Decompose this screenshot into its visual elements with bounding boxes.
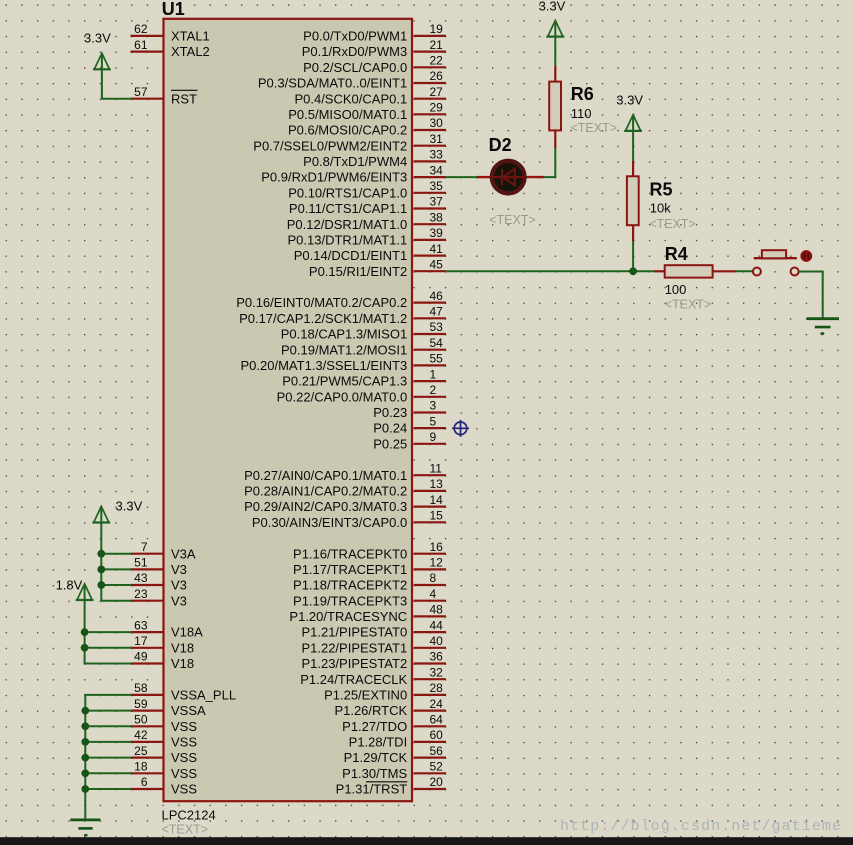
svg-text:37: 37 xyxy=(430,195,444,209)
pin 11 stub right xyxy=(414,474,446,476)
pin 6 stub left xyxy=(131,788,164,790)
svg-text:P0.24: P0.24 xyxy=(373,421,407,436)
pin 27 stub right xyxy=(414,98,446,100)
button actuator marker xyxy=(800,250,812,262)
svg-text:47: 47 xyxy=(430,305,444,319)
svg-text:36: 36 xyxy=(430,650,444,664)
pin 61 stub left xyxy=(131,50,164,52)
wire 3.3V bus V3 xyxy=(100,522,102,601)
pin 39 stub right xyxy=(414,239,446,241)
svg-text:P0.19/MAT1.2/MOSI1: P0.19/MAT1.2/MOSI1 xyxy=(281,342,407,357)
pin 9 stub right xyxy=(414,443,446,445)
node VSS 6 xyxy=(81,785,89,793)
pin 51 stub left xyxy=(131,568,164,570)
pin 14 stub right xyxy=(414,506,446,508)
node VSS 25 xyxy=(81,754,89,762)
pin 34 stub right xyxy=(414,176,446,178)
svg-text:P1.18/TRACEPKT2: P1.18/TRACEPKT2 xyxy=(293,578,407,593)
pin 4 stub right xyxy=(414,600,446,602)
junction node xyxy=(629,267,637,275)
svg-text:P1.26/RTCK: P1.26/RTCK xyxy=(334,703,407,718)
svg-text:P0.30/AIN3/EINT3/CAP0.0: P0.30/AIN3/EINT3/CAP0.0 xyxy=(252,515,407,530)
pin 56 stub right xyxy=(414,756,446,758)
svg-text:5: 5 xyxy=(430,414,437,428)
pin 29 stub right xyxy=(414,113,446,115)
svg-text:34: 34 xyxy=(430,163,444,177)
svg-text:P1.28/TDI: P1.28/TDI xyxy=(349,735,408,750)
pin 21 stub right xyxy=(414,50,446,52)
svg-text:P1.21/PIPESTAT0: P1.21/PIPESTAT0 xyxy=(301,625,407,640)
svg-text:VSS: VSS xyxy=(171,766,197,781)
wire to V3 51 xyxy=(100,568,131,570)
svg-text:17: 17 xyxy=(134,634,148,648)
svg-text:45: 45 xyxy=(430,257,444,271)
svg-text:U1: U1 xyxy=(162,0,185,19)
svg-text:29: 29 xyxy=(430,101,444,115)
svg-text:31: 31 xyxy=(430,132,444,146)
svg-text:<TEXT>: <TEXT> xyxy=(162,823,209,837)
wire R5 to node xyxy=(632,241,634,271)
power arrow 3.3V xyxy=(624,115,642,131)
bottom bar xyxy=(0,837,853,845)
svg-text:50: 50 xyxy=(134,713,148,727)
pin 59 stub left xyxy=(131,709,164,711)
svg-text:39: 39 xyxy=(430,226,444,240)
pin 54 stub right xyxy=(414,349,446,351)
pin 22 stub right xyxy=(414,66,446,68)
svg-text:1: 1 xyxy=(430,367,437,381)
pin 25 stub left xyxy=(131,756,164,758)
pin 2 stub right xyxy=(414,396,446,398)
pin 37 stub right xyxy=(414,207,446,209)
svg-text:XTAL2: XTAL2 xyxy=(171,44,210,59)
resistor R5 top pin xyxy=(632,161,634,177)
svg-text:63: 63 xyxy=(134,618,148,632)
svg-text:13: 13 xyxy=(430,477,444,491)
resistor R4 left pin xyxy=(655,270,666,272)
svg-text:3.3V: 3.3V xyxy=(616,92,643,107)
node V18A xyxy=(81,628,89,636)
pin 35 stub right xyxy=(414,192,446,194)
pin 5 stub right xyxy=(414,427,446,429)
svg-text:61: 61 xyxy=(134,38,148,52)
wire to V3 43 xyxy=(100,584,131,586)
node V3 43 xyxy=(97,581,105,589)
svg-text:53: 53 xyxy=(430,320,444,334)
svg-text:V3: V3 xyxy=(171,578,187,593)
pin 26 stub right xyxy=(414,82,446,84)
pin 7 stub left xyxy=(131,553,164,555)
svg-text:24: 24 xyxy=(430,697,444,711)
chip U1 (LPC2124) body xyxy=(164,19,413,801)
node V18 17 xyxy=(81,644,89,652)
power arrow 3.3V xyxy=(92,506,110,522)
pin 1 stub right xyxy=(414,380,446,382)
node V3A xyxy=(97,550,105,558)
svg-text:P0.21/PWM5/CAP1.3: P0.21/PWM5/CAP1.3 xyxy=(282,374,407,389)
svg-text:42: 42 xyxy=(134,728,148,742)
wire R4 to button xyxy=(736,270,753,272)
svg-text:110: 110 xyxy=(571,106,592,121)
svg-text:25: 25 xyxy=(134,744,148,758)
pin 28 stub right xyxy=(414,694,446,696)
svg-text:22: 22 xyxy=(430,54,444,68)
pin 38 stub right xyxy=(414,223,446,225)
svg-text:3: 3 xyxy=(430,399,437,413)
node VSS 18 xyxy=(81,769,89,777)
svg-text:P0.8/TxD1/PWM4: P0.8/TxD1/PWM4 xyxy=(303,154,407,169)
wire 3.3V to R5 xyxy=(632,130,634,161)
pin 33 stub right xyxy=(414,160,446,162)
pin 50 stub left xyxy=(131,725,164,727)
svg-text:3.3V: 3.3V xyxy=(116,499,143,514)
svg-text:9: 9 xyxy=(430,430,437,444)
wire button to ground xyxy=(799,272,823,319)
svg-text:21: 21 xyxy=(430,38,444,52)
svg-text:V18: V18 xyxy=(171,640,194,655)
svg-text:100: 100 xyxy=(665,282,687,297)
svg-text:51: 51 xyxy=(134,556,148,570)
pin 18 stub left xyxy=(131,772,164,774)
svg-text:R4: R4 xyxy=(665,244,688,264)
wire 3.3V to RST vertical xyxy=(101,69,103,99)
svg-text:49: 49 xyxy=(134,650,148,664)
svg-text:60: 60 xyxy=(430,728,444,742)
wire to V18A xyxy=(84,631,132,633)
resistor R6 top pin xyxy=(554,66,556,83)
pin 48 stub right xyxy=(414,615,446,617)
wire to VSS 42 xyxy=(84,741,131,743)
svg-text:44: 44 xyxy=(430,618,444,632)
resistor R4 right pin xyxy=(713,270,736,272)
svg-text:62: 62 xyxy=(134,22,148,36)
svg-text:P0.5/MISO0/MAT0.1: P0.5/MISO0/MAT0.1 xyxy=(288,107,407,122)
svg-text:VSS: VSS xyxy=(171,719,197,734)
pin 15 stub right xyxy=(414,521,446,523)
pin 16 stub right xyxy=(414,553,446,555)
svg-text:28: 28 xyxy=(430,681,444,695)
RST overline xyxy=(171,89,198,91)
pin 58 stub left xyxy=(131,694,164,696)
pin 42 stub left xyxy=(131,741,164,743)
svg-text:V3A: V3A xyxy=(171,546,196,561)
svg-text:59: 59 xyxy=(134,697,148,711)
svg-text:27: 27 xyxy=(430,85,444,99)
svg-text:P0.7/SSEL0/PWM2/EINT2: P0.7/SSEL0/PWM2/EINT2 xyxy=(253,138,407,153)
svg-text:11: 11 xyxy=(430,461,443,475)
node VSS 42 xyxy=(81,738,89,746)
svg-text:48: 48 xyxy=(430,603,444,617)
svg-text:1.8V: 1.8V xyxy=(56,577,83,592)
svg-text:LPC2124: LPC2124 xyxy=(162,808,216,823)
svg-text:P1.23/PIPESTAT2: P1.23/PIPESTAT2 xyxy=(301,656,407,671)
svg-text:55: 55 xyxy=(430,352,444,366)
pin 43 stub left xyxy=(131,584,164,586)
pin 49 stub left xyxy=(131,662,164,664)
svg-text:V18: V18 xyxy=(171,656,194,671)
wire R6 to LED corner xyxy=(543,148,555,177)
svg-text:P0.22/CAP0.0/MAT0.0: P0.22/CAP0.0/MAT0.0 xyxy=(277,389,408,404)
pin 45 stub right xyxy=(414,270,446,272)
svg-text:P0.2/SCL/CAP0.0: P0.2/SCL/CAP0.0 xyxy=(303,60,407,75)
svg-text:15: 15 xyxy=(430,509,444,523)
svg-text:P1.16/TRACEPKT0: P1.16/TRACEPKT0 xyxy=(293,546,407,561)
svg-text:43: 43 xyxy=(134,571,148,585)
svg-text:46: 46 xyxy=(430,289,444,303)
svg-text:18: 18 xyxy=(134,760,148,774)
svg-text:P0.11/CTS1/CAP1.1: P0.11/CTS1/CAP1.1 xyxy=(289,201,407,216)
LED D2 right pin xyxy=(524,176,544,178)
pin 57 stub left xyxy=(131,98,164,100)
power arrow 3.3V xyxy=(93,53,111,69)
pin 23 stub left xyxy=(131,600,164,602)
svg-text:P0.15/RI1/EINT2: P0.15/RI1/EINT2 xyxy=(309,264,407,279)
wire to VSSA xyxy=(84,710,131,712)
pin 46 stub right xyxy=(414,302,446,304)
pin 36 stub right xyxy=(414,662,446,664)
pin 20 stub right xyxy=(414,788,446,790)
pin 31 stub right xyxy=(414,145,446,147)
svg-text:P1.29/TCK: P1.29/TCK xyxy=(344,750,408,765)
resistor R5 bottom pin xyxy=(632,225,634,241)
wire P0.15 net xyxy=(445,270,656,272)
svg-text:56: 56 xyxy=(430,744,444,758)
pin 41 stub right xyxy=(414,255,446,257)
svg-text:<TEXT>: <TEXT> xyxy=(571,121,618,135)
svg-text:54: 54 xyxy=(430,336,444,350)
svg-text:6: 6 xyxy=(141,775,148,789)
svg-text:P0.12/DSR1/MAT1.0: P0.12/DSR1/MAT1.0 xyxy=(287,217,407,232)
svg-text:38: 38 xyxy=(430,210,444,224)
svg-text:P0.23: P0.23 xyxy=(373,405,407,420)
svg-text:P1.25/EXTIN0: P1.25/EXTIN0 xyxy=(324,688,407,703)
svg-text:VSS: VSS xyxy=(171,750,197,765)
pin 55 stub right xyxy=(414,364,446,366)
svg-text:P1.30/TMS: P1.30/TMS xyxy=(342,766,407,781)
LED D2 body xyxy=(492,161,525,194)
svg-text:P1.31/TRST: P1.31/TRST xyxy=(336,782,408,797)
svg-text:7: 7 xyxy=(141,540,148,554)
ground left xyxy=(70,819,100,822)
LED D2 left pin xyxy=(477,176,492,178)
svg-text:VSS: VSS xyxy=(171,735,197,750)
svg-text:P0.18/CAP1.3/MISO1: P0.18/CAP1.3/MISO1 xyxy=(281,327,407,342)
pin 24 stub right xyxy=(414,709,446,711)
svg-text:57: 57 xyxy=(134,85,148,99)
wire to VSS 18 xyxy=(84,772,131,774)
LED D2 diode symbol xyxy=(492,169,525,186)
power arrow 1.8V xyxy=(76,584,94,600)
wire to V3 23 xyxy=(100,600,131,602)
svg-text:40: 40 xyxy=(430,634,444,648)
svg-text:http://blog.csdn.net/gatieme: http://blog.csdn.net/gatieme xyxy=(560,818,841,835)
pin 30 stub right xyxy=(414,129,446,131)
svg-text:P0.3/SDA/MAT0..0/EINT1: P0.3/SDA/MAT0..0/EINT1 xyxy=(258,76,407,91)
svg-text:P1.24/TRACECLK: P1.24/TRACECLK xyxy=(300,672,407,687)
button right terminal xyxy=(791,268,799,276)
pin 53 stub right xyxy=(414,333,446,335)
svg-text:P0.20/MAT1.3/SSEL1/EINT3: P0.20/MAT1.3/SSEL1/EINT3 xyxy=(241,358,408,373)
svg-text:P0.14/DCD1/EINT1: P0.14/DCD1/EINT1 xyxy=(294,248,407,263)
svg-text:10k: 10k xyxy=(650,201,671,216)
origin crosshair cursor xyxy=(452,420,469,437)
svg-text:P0.4/SCK0/CAP0.1: P0.4/SCK0/CAP0.1 xyxy=(294,91,407,106)
svg-text:V18A: V18A xyxy=(171,625,203,640)
pin 47 stub right xyxy=(414,317,446,319)
svg-text:P0.29/AIN2/CAP0.3/MAT0.3: P0.29/AIN2/CAP0.3/MAT0.3 xyxy=(244,499,407,514)
svg-text:P0.16/EINT0/MAT0.2/CAP0.2: P0.16/EINT0/MAT0.2/CAP0.2 xyxy=(236,295,407,310)
svg-text:R5: R5 xyxy=(650,179,673,199)
svg-text:VSS: VSS xyxy=(171,782,197,797)
svg-text:P0.1/RxD0/PWM3: P0.1/RxD0/PWM3 xyxy=(302,44,407,59)
svg-text:D2: D2 xyxy=(489,135,512,155)
svg-text:P0.28/AIN1/CAP0.2/MAT0.2: P0.28/AIN1/CAP0.2/MAT0.2 xyxy=(244,484,407,499)
power arrow 3.3V xyxy=(546,21,564,37)
pin 44 stub right xyxy=(414,631,446,633)
svg-text:16: 16 xyxy=(430,540,444,554)
svg-text:41: 41 xyxy=(430,242,444,256)
svg-text:P1.22/PIPESTAT1: P1.22/PIPESTAT1 xyxy=(301,640,407,655)
svg-text:P0.25: P0.25 xyxy=(373,436,407,451)
resistor R5 body xyxy=(627,176,639,225)
svg-text:3.3V: 3.3V xyxy=(84,31,111,46)
svg-text:32: 32 xyxy=(430,665,444,679)
svg-text:P0.0/TxD0/PWM1: P0.0/TxD0/PWM1 xyxy=(303,29,407,44)
svg-text:V3: V3 xyxy=(171,593,187,608)
svg-text:52: 52 xyxy=(430,760,444,774)
pin 19 stub right xyxy=(414,35,446,37)
svg-text:P0.6/MOSI0/CAP0.2: P0.6/MOSI0/CAP0.2 xyxy=(288,123,407,138)
svg-text:R6: R6 xyxy=(571,84,594,104)
pin 8 stub right xyxy=(414,584,446,586)
svg-text:P1.19/TRACEPKT3: P1.19/TRACEPKT3 xyxy=(293,593,407,608)
wire 1.8V bus xyxy=(84,599,86,664)
pin 40 stub right xyxy=(414,647,446,649)
svg-text:3.3V: 3.3V xyxy=(539,0,566,14)
svg-text:VSSA: VSSA xyxy=(171,703,206,718)
wire to V18 17 xyxy=(84,647,132,649)
svg-text:20: 20 xyxy=(430,775,444,789)
wire 3.3V to R6 xyxy=(554,36,556,66)
resistor R4 body xyxy=(665,265,713,277)
svg-text:64: 64 xyxy=(430,713,444,727)
svg-text:VSSA_PLL: VSSA_PLL xyxy=(171,688,236,703)
svg-text:RST: RST xyxy=(171,91,197,106)
wire to VSS 50 xyxy=(84,725,131,727)
pin 60 stub right xyxy=(414,741,446,743)
svg-text:2: 2 xyxy=(430,383,437,397)
pin 63 stub left xyxy=(131,631,164,633)
pin 3 stub right xyxy=(414,411,446,413)
svg-text:14: 14 xyxy=(430,493,444,507)
node VSSA xyxy=(81,707,89,715)
resistor R6 bottom pin xyxy=(554,130,556,148)
node V3 51 xyxy=(97,566,105,574)
pin 32 stub right xyxy=(414,678,446,680)
svg-text:19: 19 xyxy=(430,22,444,36)
svg-text:V3: V3 xyxy=(171,562,187,577)
wire to V18 49 xyxy=(84,663,132,665)
svg-text:XTAL1: XTAL1 xyxy=(171,29,210,44)
svg-text:58: 58 xyxy=(134,681,148,695)
wire to VSS 25 xyxy=(84,757,131,759)
ground right xyxy=(807,317,839,320)
svg-text:P0.27/AIN0/CAP0.1/MAT0.1: P0.27/AIN0/CAP0.1/MAT0.1 xyxy=(244,468,407,483)
button cap xyxy=(762,250,786,258)
svg-text:33: 33 xyxy=(430,148,444,162)
button left terminal xyxy=(753,268,761,276)
svg-text:<TEXT>: <TEXT> xyxy=(665,297,712,311)
pin 62 stub left xyxy=(131,35,164,37)
wire to VSSA_PLL xyxy=(84,694,131,696)
svg-text:P1.27/TDO: P1.27/TDO xyxy=(342,719,407,734)
svg-text:P1.17/TRACEPKT1: P1.17/TRACEPKT1 xyxy=(293,562,407,577)
node VSS 50 xyxy=(81,722,89,730)
svg-text:26: 26 xyxy=(430,69,444,83)
svg-text:12: 12 xyxy=(430,556,444,570)
wire P0.9 to LED xyxy=(445,176,478,178)
wire 3.3V to RST horizontal xyxy=(101,98,132,100)
wire VSS bus vertical xyxy=(84,695,86,819)
pin 52 stub right xyxy=(414,772,446,774)
pin 13 stub right xyxy=(414,490,446,492)
wire to VSS 6 xyxy=(84,788,131,790)
svg-text:8: 8 xyxy=(430,571,437,585)
resistor R6 body xyxy=(549,82,561,131)
pin 12 stub right xyxy=(414,568,446,570)
svg-text:30: 30 xyxy=(430,116,444,130)
wire to V3A xyxy=(100,553,131,555)
svg-text:4: 4 xyxy=(430,587,437,601)
svg-text:35: 35 xyxy=(430,179,444,193)
svg-text:P0.17/CAP1.2/SCK1/MAT1.2: P0.17/CAP1.2/SCK1/MAT1.2 xyxy=(239,311,407,326)
svg-text:P0.10/RTS1/CAP1.0: P0.10/RTS1/CAP1.0 xyxy=(288,185,407,200)
svg-text:P0.9/RxD1/PWM6/EINT3: P0.9/RxD1/PWM6/EINT3 xyxy=(261,170,407,185)
svg-text:P1.20/TRACESYNC: P1.20/TRACESYNC xyxy=(289,609,407,624)
pin 64 stub right xyxy=(414,725,446,727)
svg-text:<TEXT>: <TEXT> xyxy=(489,213,536,227)
svg-text:P0.13/DTR1/MAT1.1: P0.13/DTR1/MAT1.1 xyxy=(287,233,407,248)
pin 17 stub left xyxy=(131,647,164,649)
svg-text:23: 23 xyxy=(134,587,148,601)
button bar xyxy=(754,257,797,259)
svg-text:<TEXT>: <TEXT> xyxy=(649,217,696,231)
